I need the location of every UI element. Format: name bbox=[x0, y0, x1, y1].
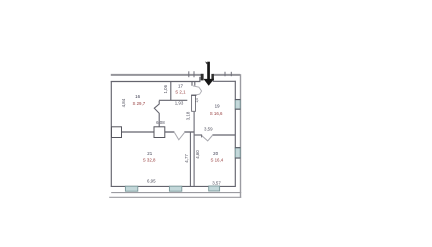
apartment top wall right of entrance bbox=[213, 78, 235, 81]
door swing room 21 bbox=[175, 133, 185, 140]
apartment perimeter wall left bbox=[110, 81, 112, 187]
svg-text:2,0: 2,0 bbox=[195, 98, 199, 103]
svg-text:1,06: 1,06 bbox=[163, 84, 168, 93]
room 17 left wall bbox=[170, 82, 172, 101]
wall room19/20 left segment bbox=[195, 134, 202, 136]
svg-text:1,93: 1,93 bbox=[175, 101, 184, 106]
column 1 bbox=[112, 127, 122, 138]
tick 4 on landing wall bbox=[230, 72, 232, 76]
svg-text:3,59: 3,59 bbox=[204, 126, 213, 131]
entrance jamb left bbox=[201, 74, 204, 81]
svg-text:S 16,4: S 16,4 bbox=[210, 158, 223, 163]
apartment top wall left of entrance with jog bbox=[111, 77, 200, 82]
svg-text:3,57: 3,57 bbox=[212, 180, 221, 185]
outer landing wall top bbox=[111, 74, 240, 76]
window W5 right lower bbox=[235, 148, 240, 159]
tick 3 on landing wall bbox=[224, 72, 226, 76]
partition room16/hall with break symbol bbox=[154, 101, 159, 127]
svg-text:21: 21 bbox=[147, 151, 152, 156]
column 2 bbox=[154, 127, 165, 138]
outer line bottom 2 bbox=[109, 196, 241, 198]
door swing room 19/20 bbox=[202, 136, 213, 141]
svg-text:6,95: 6,95 bbox=[147, 178, 156, 183]
outer line bottom 1 bbox=[111, 192, 241, 194]
svg-text:6,08: 6,08 bbox=[156, 120, 165, 125]
tick 1 on landing wall bbox=[188, 71, 190, 77]
window W4 right upper bbox=[235, 99, 240, 109]
svg-text:4,60: 4,60 bbox=[195, 150, 200, 159]
window W3 bottom right bbox=[209, 186, 220, 191]
room 17 bottom wall bbox=[159, 99, 187, 101]
wall room21/20 left line bbox=[189, 132, 191, 187]
entrance door swing arc bbox=[193, 86, 202, 95]
door leaf top cap bbox=[191, 94, 196, 96]
outer wall right bbox=[240, 74, 242, 198]
svg-text:S 32,8: S 32,8 bbox=[143, 158, 156, 163]
svg-text:16: 16 bbox=[135, 94, 140, 99]
svg-text:17: 17 bbox=[178, 84, 183, 89]
svg-text:4,77: 4,77 bbox=[184, 154, 189, 163]
svg-text:S 29,7: S 29,7 bbox=[132, 101, 145, 106]
door 19/20 leaf stub bbox=[201, 134, 203, 137]
wall hall/room19 and room21/20 right line bbox=[193, 112, 195, 187]
svg-text:3,18: 3,18 bbox=[186, 111, 191, 120]
apartment perimeter wall right bbox=[234, 81, 236, 187]
entrance door leaf bbox=[192, 95, 196, 111]
wall hall/21 segment right of door bbox=[184, 131, 194, 133]
room 17 right wall stub bbox=[192, 82, 195, 86]
wall room19/20 right segment bbox=[212, 134, 235, 136]
entrance arrow bbox=[205, 62, 208, 64]
window W2 bottom middle bbox=[169, 186, 181, 191]
window W1 bottom left bbox=[125, 186, 137, 191]
svg-text:4,84: 4,84 bbox=[121, 98, 126, 107]
apartment perimeter wall bottom bbox=[111, 185, 236, 187]
entrance jamb right bbox=[211, 74, 214, 80]
tick 2 on landing wall bbox=[193, 71, 195, 77]
svg-text:19: 19 bbox=[215, 104, 220, 109]
wall room16/21 segment between columns bbox=[122, 131, 155, 133]
svg-text:S 16,6: S 16,6 bbox=[210, 111, 223, 116]
wall room16/21 segment right of column 2 bbox=[165, 131, 175, 133]
svg-text:20: 20 bbox=[213, 151, 218, 156]
svg-text:S 2,1: S 2,1 bbox=[175, 89, 186, 94]
